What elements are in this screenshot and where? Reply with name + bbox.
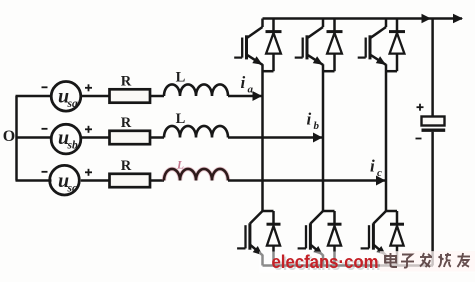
svg-text:sb: sb xyxy=(67,140,78,152)
wire: neutral bus to source u_sc xyxy=(16,179,52,182)
current arrow i_c xyxy=(376,176,386,186)
current arrow i_b xyxy=(313,133,323,143)
watermark text dianzi fashaoyou (Chinese) xyxy=(385,253,470,268)
svg-text:O: O xyxy=(3,128,15,145)
wire: inductor to bridge leg, carries i_a xyxy=(228,95,263,98)
wire: inductor to bridge leg, carries i_c xyxy=(228,179,386,182)
arrowhead: positive output terminal xyxy=(453,14,463,23)
wire: emitter of Q3 / anode of D3 to phase node c xyxy=(386,70,397,73)
svg-text:i: i xyxy=(241,73,246,92)
label i_a xyxy=(241,73,254,96)
wire: neutral bus to source u_sb xyxy=(16,136,52,139)
svg-text:i: i xyxy=(370,157,375,176)
source u_sb xyxy=(42,124,93,154)
diode D4 (antiparallel with Q4) xyxy=(267,211,281,266)
svg-text:L: L xyxy=(176,111,186,127)
diode D2 (antiparallel with Q2) xyxy=(327,19,343,72)
resistor R (phase c) xyxy=(110,158,151,187)
diode D6 (antiparallel with Q6) xyxy=(390,211,404,266)
transistor Q4 (lower IGBT, phase a) xyxy=(237,211,262,266)
wire: neutral bus vertical xyxy=(15,96,18,181)
svg-text:c: c xyxy=(377,167,382,179)
wire: phase node b down to lower leg xyxy=(322,138,325,212)
wire: source u_sc to resistor xyxy=(81,179,110,182)
inductor L (phase c) xyxy=(164,160,228,181)
wire: inductor to bridge leg, carries i_b xyxy=(228,136,323,139)
arrowhead: dc current direction xyxy=(422,14,432,23)
wire: resistor to inductor (phase a) xyxy=(150,95,164,98)
svg-text:R: R xyxy=(121,158,132,174)
diode D5 (antiparallel with Q5) xyxy=(328,211,342,266)
resistor R (phase a) xyxy=(110,74,151,103)
wire: negative DC bus (bottom) xyxy=(263,264,434,267)
current arrow i_a xyxy=(253,91,263,101)
diode D1 (antiparallel with Q1) xyxy=(266,19,282,72)
svg-text:b: b xyxy=(314,120,320,132)
transistor Q5 (lower IGBT, phase b) xyxy=(298,211,323,266)
svg-text:elecfans·com: elecfans·com xyxy=(272,252,379,272)
svg-text:sa: sa xyxy=(67,98,78,110)
svg-text:sc: sc xyxy=(67,183,78,195)
svg-text:L: L xyxy=(176,160,184,172)
inductor L (phase a) xyxy=(164,70,228,97)
svg-text:R: R xyxy=(121,74,132,90)
transistor Q1 (upper IGBT, phase a) xyxy=(234,19,262,65)
resistor R (phase b) xyxy=(110,115,151,144)
watermark text elecfans.com xyxy=(272,252,381,274)
wire: source u_sb to resistor xyxy=(81,136,110,139)
transistor Q6 (lower IGBT, phase c) xyxy=(361,211,386,266)
transistor Q3 (upper IGBT, phase c) xyxy=(358,19,386,65)
inductor L (phase b) xyxy=(164,111,228,138)
wire: capacitor to negative bus xyxy=(431,132,434,266)
label i_c xyxy=(370,157,382,180)
transistor Q2 (upper IGBT, phase b) xyxy=(295,19,323,65)
svg-text:R: R xyxy=(121,115,132,131)
source u_sc xyxy=(42,165,93,195)
wire: collector of Q5 / cathode of D5 tie xyxy=(323,210,335,213)
svg-text:a: a xyxy=(248,84,254,96)
wire: resistor to inductor (phase c) xyxy=(150,179,164,182)
diode D3 (antiparallel with Q3) xyxy=(389,19,405,72)
label i_b xyxy=(307,110,320,133)
wire: collector of Q4 / cathode of D4 tie xyxy=(263,210,274,213)
wire: dc bus to capacitor xyxy=(431,19,434,117)
svg-text:L: L xyxy=(176,70,186,86)
wire: positive DC bus (top) xyxy=(263,17,463,20)
watermark overlay strip xyxy=(259,252,475,273)
wire: collector of Q6 / cathode of D6 tie xyxy=(386,210,397,213)
wire: phase node c down to lower leg xyxy=(385,181,388,212)
svg-text:i: i xyxy=(307,110,312,129)
source u_sa xyxy=(42,82,93,112)
wire: phase node a down to lower leg xyxy=(261,96,264,211)
wire: neutral bus to source u_sa xyxy=(16,95,52,98)
wire: emitter of Q2 / anode of D2 to phase node b xyxy=(323,70,335,73)
capacitor C (dc-link electrolytic) xyxy=(416,104,446,139)
wire: source u_sa to resistor xyxy=(81,95,110,98)
wire: resistor to inductor (phase b) xyxy=(150,136,164,139)
wire: emitter of Q1 / anode of D1 to phase node a xyxy=(263,70,274,73)
